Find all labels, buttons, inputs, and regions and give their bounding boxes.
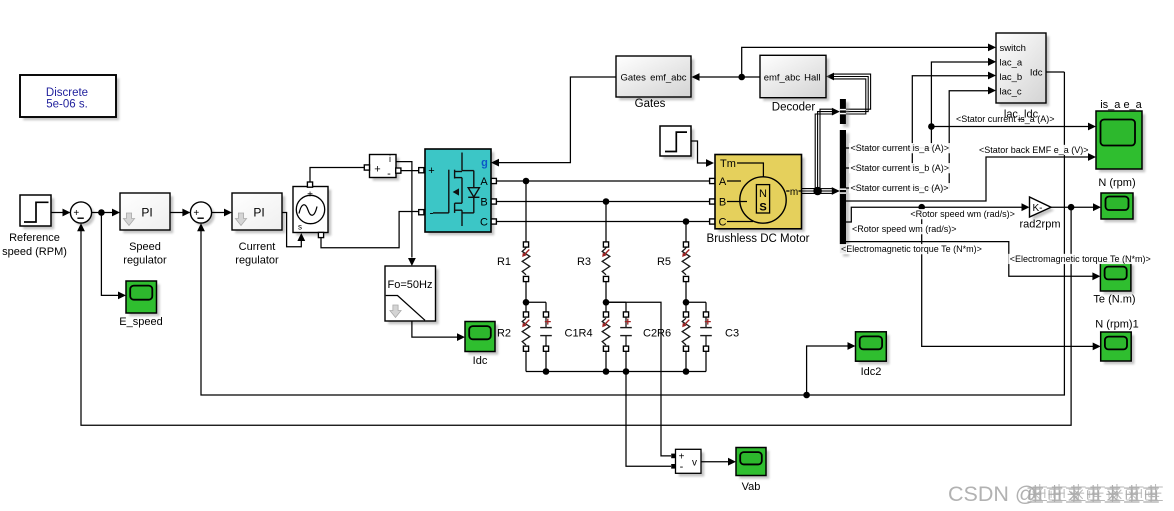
svg-text:Brushless DC Motor: Brushless DC Motor <box>707 233 810 245</box>
svg-text:PI: PI <box>141 206 152 220</box>
svg-text:emf_abc: emf_abc <box>764 73 801 84</box>
svg-text:<Stator current is_b (A)>: <Stator current is_b (A)> <box>851 163 950 173</box>
svg-text:CSDN @: CSDN @ <box>948 482 1037 506</box>
svg-text:Tm: Tm <box>720 158 736 170</box>
svg-text:lac_a: lac_a <box>1000 57 1023 68</box>
svg-text:switch: switch <box>1000 43 1026 54</box>
svg-text:Idc: Idc <box>473 355 488 367</box>
svg-text:-: - <box>387 168 391 180</box>
svg-text:N (rpm)1: N (rpm)1 <box>1095 319 1138 331</box>
svg-text:C: C <box>480 216 488 228</box>
svg-text:-: - <box>430 206 434 220</box>
svg-text:Gates: Gates <box>635 98 666 110</box>
svg-text:is_a e_a: is_a e_a <box>1100 99 1142 111</box>
svg-text:Speed: Speed <box>129 241 161 253</box>
svg-text:Fo=50Hz: Fo=50Hz <box>388 279 433 291</box>
svg-text:A: A <box>480 176 488 188</box>
svg-text:Reference: Reference <box>9 232 60 244</box>
svg-text:regulator: regulator <box>123 255 167 267</box>
svg-text:speed (RPM): speed (RPM) <box>2 246 67 258</box>
svg-text:+: + <box>428 165 434 177</box>
svg-text:R3: R3 <box>577 256 591 268</box>
svg-text:N: N <box>759 188 767 200</box>
svg-text:Current: Current <box>239 241 276 253</box>
svg-text:<Stator current is_c (A)>: <Stator current is_c (A)> <box>851 183 949 193</box>
svg-text:R1: R1 <box>497 256 511 268</box>
svg-text:C3: C3 <box>725 327 739 339</box>
svg-text:m: m <box>790 187 798 198</box>
svg-text:Idc2: Idc2 <box>861 366 882 378</box>
svg-text:<Electromagnetic torque Te (N*: <Electromagnetic torque Te (N*m)> <box>1010 254 1151 264</box>
svg-text:Gates: Gates <box>621 73 647 84</box>
svg-text:+: + <box>374 164 380 176</box>
svg-text:B: B <box>480 196 487 208</box>
svg-text:C1R4: C1R4 <box>565 327 593 339</box>
svg-text:Discrete: Discrete <box>46 87 88 99</box>
svg-text:<Rotor speed wm (rad/s)>: <Rotor speed wm (rad/s)> <box>852 224 957 234</box>
svg-text:K-: K- <box>1033 203 1043 214</box>
svg-text:B: B <box>719 197 726 209</box>
svg-text:R5: R5 <box>657 256 671 268</box>
svg-text:N (rpm): N (rpm) <box>1098 177 1135 189</box>
svg-text:i: i <box>389 154 391 164</box>
svg-text:regulator: regulator <box>235 255 279 267</box>
svg-text:<Stator current is_a (A)>: <Stator current is_a (A)> <box>851 143 950 153</box>
svg-text:lac_ldc: lac_ldc <box>1004 109 1039 121</box>
svg-text:C: C <box>719 217 727 229</box>
svg-text:Te (N.m): Te (N.m) <box>1093 294 1135 306</box>
svg-text:Hall: Hall <box>804 73 820 84</box>
svg-text:S: S <box>759 202 766 214</box>
svg-text:s: s <box>298 223 302 232</box>
svg-text:<Rotor speed wm (rad/s)>: <Rotor speed wm (rad/s)> <box>910 209 1015 219</box>
svg-text:C2R6: C2R6 <box>643 327 671 339</box>
svg-text:PI: PI <box>253 206 264 220</box>
svg-text:5e-06 s.: 5e-06 s. <box>46 99 88 111</box>
svg-text:lac_b: lac_b <box>1000 72 1023 83</box>
svg-text:g: g <box>481 157 488 169</box>
svg-text:v: v <box>692 458 697 469</box>
svg-text:R2: R2 <box>497 327 511 339</box>
svg-text:lac_c: lac_c <box>1000 86 1022 97</box>
svg-text:emf_abc: emf_abc <box>650 73 687 84</box>
svg-text:A: A <box>719 176 727 188</box>
svg-text:Idc: Idc <box>1030 67 1043 78</box>
svg-text:Decoder: Decoder <box>772 102 816 114</box>
svg-text:-: - <box>680 461 684 473</box>
svg-text:Vab: Vab <box>742 481 761 493</box>
svg-text:rad2rpm: rad2rpm <box>1020 219 1061 231</box>
svg-text:<Stator back EMF e_a (V)>: <Stator back EMF e_a (V)> <box>979 145 1089 155</box>
svg-text:<Electromagnetic torque Te (N*: <Electromagnetic torque Te (N*m)> <box>841 244 982 254</box>
svg-text:E_speed: E_speed <box>119 316 162 328</box>
